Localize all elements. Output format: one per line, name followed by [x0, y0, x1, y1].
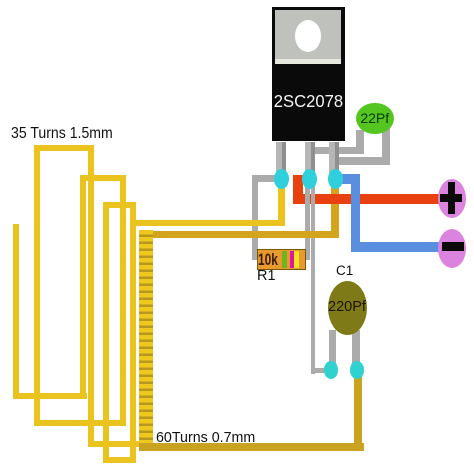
wire gray R1 right lead stub: [302, 255, 310, 260]
transistor leg 3: [329, 142, 339, 179]
transistor tab lower light strip: [275, 59, 341, 64]
wire mustard vertical up to C1 right dot: [354, 371, 363, 450]
capacitor C1 body: [328, 281, 368, 335]
wire yellow1 horizontal to coil riser v7: [130, 220, 286, 226]
coil 35 turns: vertical v1: [13, 224, 19, 400]
coil vertical v7: [130, 202, 136, 464]
transistor leg 1: [276, 142, 286, 179]
wire gray G2a dot2 down to R1 right lead: [305, 178, 310, 260]
coil vertical v3: [80, 175, 86, 399]
transistor tab hole: [295, 20, 321, 52]
wire red from collector node to + terminal (stub under dot2): [293, 175, 309, 185]
resistor band green: [282, 251, 288, 269]
wire gray R1 left lead stub: [252, 255, 259, 260]
coil bottom bandD: [103, 457, 136, 463]
resistor R1 body: [257, 249, 306, 270]
wire yellow2 horizontal (dark gold) to coil ladder: [139, 231, 339, 238]
node dot1 emitter junction: [274, 169, 289, 189]
coil 60 turns ladder column: [139, 230, 153, 446]
coil vertical v2: [34, 145, 40, 426]
resistor value label 10k: [258, 250, 278, 270]
wire gray 22pF left leg vertical: [356, 130, 363, 154]
coil vertical v5: [103, 202, 109, 464]
resistor ref label R1: [257, 268, 276, 284]
transistor label 2SC2078: [274, 91, 342, 112]
wire mustard bottom horizontal (60 turns): [139, 443, 364, 451]
label 35 Turns 1.5mm: [11, 125, 113, 143]
wire gray C1 right leg: [352, 330, 359, 371]
capacitor C1 value label: [327, 299, 367, 315]
label 60Turns 0.7mm: [156, 429, 255, 446]
wire gray G2b horizontal into C1 left dot: [311, 368, 327, 373]
terminal + cross: [440, 194, 462, 202]
coil vertical v6: [120, 175, 126, 426]
node C1 left junction: [324, 361, 338, 379]
node dot3 base junction: [328, 169, 343, 189]
wire gray 22pF right leg vertical: [382, 128, 390, 165]
wire gray 22pF right leg horizontal: [330, 157, 390, 164]
transistor metal tab: [275, 10, 341, 59]
transistor Q1 2SC2078 body: [272, 7, 345, 142]
wire gray G1 from dot1 left: [254, 175, 282, 183]
resistor band yellow: [294, 251, 299, 269]
coil vertical v4: [88, 145, 94, 448]
terminal - negative: [438, 229, 466, 268]
wire gray 22pF left leg horizontal: [311, 147, 364, 154]
terminal - bar: [442, 242, 464, 250]
wire yellow2 vertical from dot3 down (dark gold): [331, 186, 339, 238]
coil top T3: [103, 202, 136, 208]
wire gray G2b from 22pF left leg down to C1 left dot: [311, 148, 316, 374]
wire gray G1 down to R1 left lead: [252, 175, 259, 260]
coil top T2: [80, 175, 126, 181]
wire blue horizontal to - terminal: [351, 242, 443, 252]
resistor band magenta: [290, 251, 295, 269]
node dot2 collector junction: [302, 169, 317, 189]
wire red vertical elbow: [293, 175, 303, 205]
wire yellow1 from emitter dot1 vertical: [278, 182, 286, 226]
coil bottom bandB: [34, 420, 126, 426]
terminal + positive: [438, 179, 466, 218]
wire blue stub from dot3: [335, 174, 360, 185]
transistor leg 2: [305, 142, 315, 179]
wire red horizontal to +: [293, 194, 439, 204]
node C1 right junction: [350, 361, 364, 379]
wire blue vertical: [351, 174, 361, 252]
capacitor C1 ref label: [336, 263, 353, 278]
coil top T1: [34, 145, 94, 151]
coil bottom bandA: [13, 393, 87, 399]
capacitor 22pF body: [356, 103, 394, 134]
capacitor 22pF label: [356, 110, 394, 126]
coil bottom bandC: [88, 441, 152, 447]
wire gray C1 left leg: [329, 330, 336, 371]
